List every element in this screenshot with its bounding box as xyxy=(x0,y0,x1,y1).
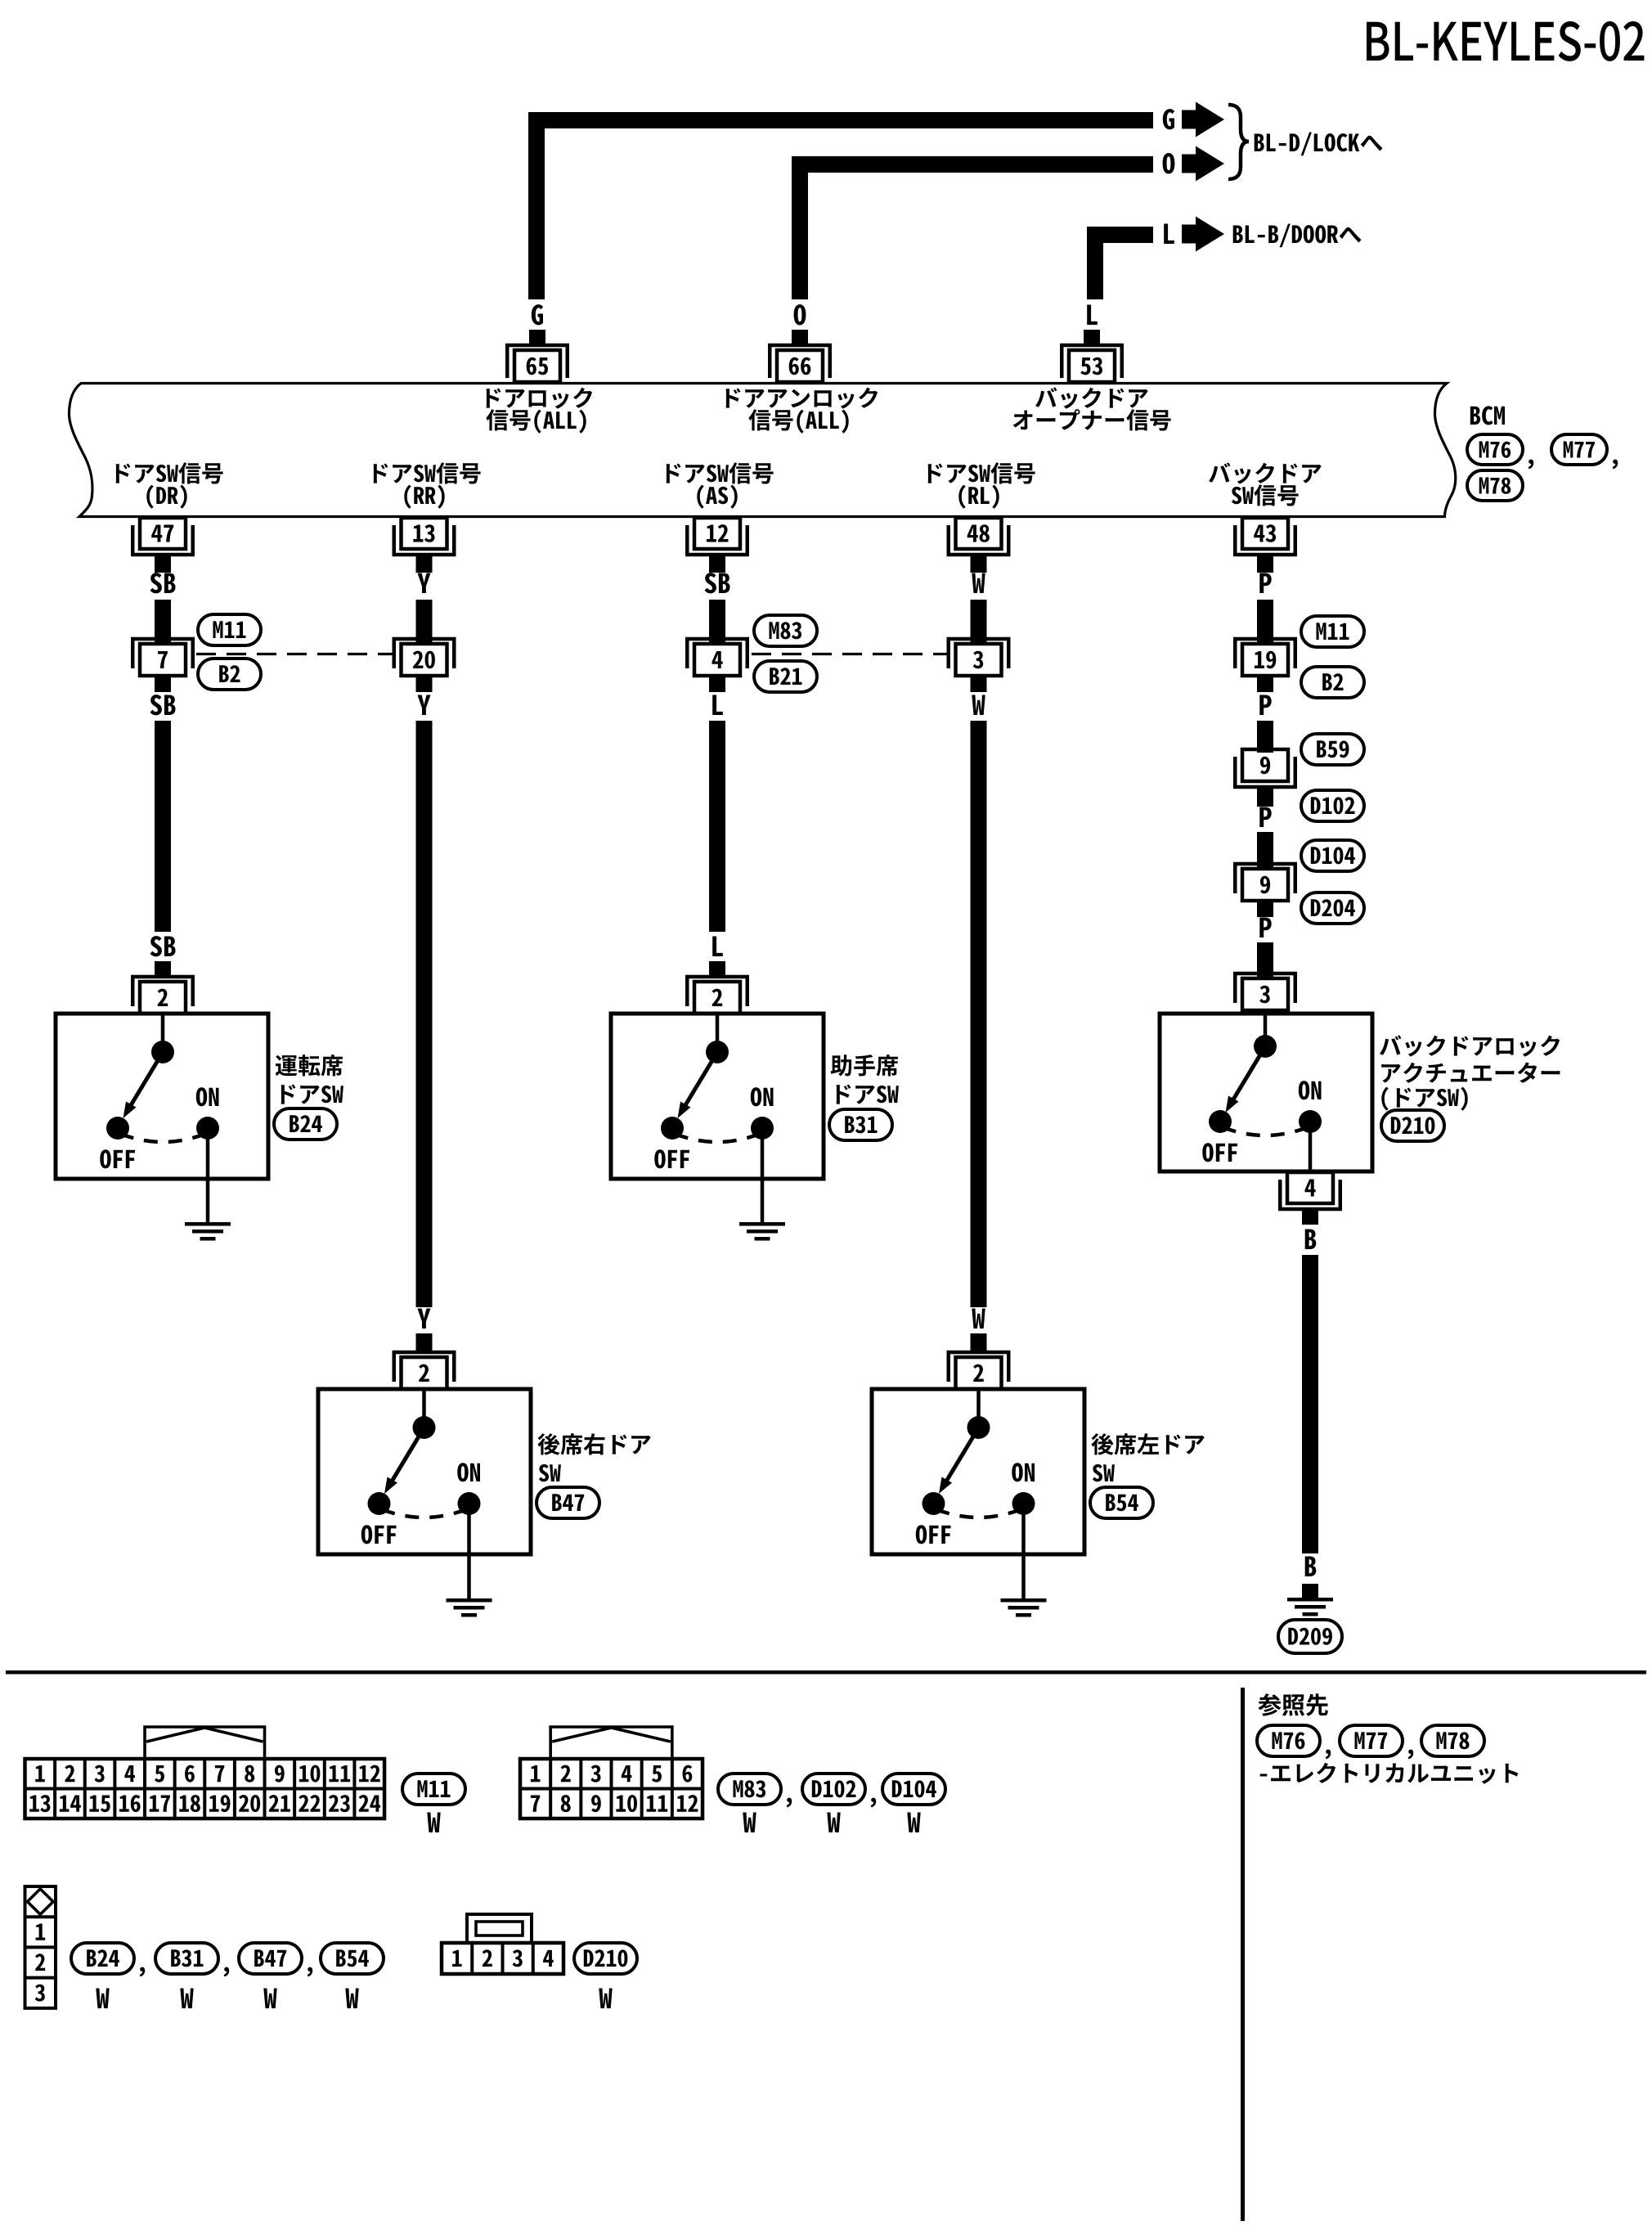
text door unlock signal (ALL) xyxy=(726,388,878,409)
label O above pin 66 xyxy=(794,304,806,325)
connector ref B54 (table) xyxy=(321,1943,384,1974)
connector ref M77 (reference) xyxy=(1340,1725,1403,1756)
connector ref M76 (reference) xyxy=(1257,1725,1320,1756)
BCM pin 13 box xyxy=(402,518,447,549)
switch dashed travel arc xyxy=(1223,1127,1308,1135)
connector ref D209 xyxy=(1278,1620,1342,1653)
wire stub below pin 4 xyxy=(1302,1211,1318,1225)
wire col2 Y down to rear right door SW xyxy=(416,721,433,1307)
switch common contact dot xyxy=(706,1041,729,1063)
connector ref B2 (col1) xyxy=(198,659,261,690)
connector ref D204 xyxy=(1301,892,1364,924)
BCM pin 47 box xyxy=(140,518,186,549)
connector pin 2 (B47) xyxy=(394,1352,455,1382)
BCM pin 66 box xyxy=(777,350,823,382)
switch common contact feed line xyxy=(1264,1014,1268,1046)
connector ref M11 (col1) xyxy=(198,614,261,645)
connector ref B47 (table) xyxy=(239,1943,302,1974)
switch box B54 (rear left door SW) xyxy=(872,1389,1084,1554)
switch common contact dot xyxy=(413,1416,436,1439)
BCM pin 48 bracket xyxy=(949,525,1009,555)
BCM pin 43 box xyxy=(1242,518,1288,549)
switch ON contact dot xyxy=(1012,1492,1035,1515)
brace BL-D/LOCK xyxy=(1228,105,1249,179)
label O wire color (right) xyxy=(1163,153,1175,173)
text BCM xyxy=(1470,406,1505,425)
wire col4 W from pin 48 xyxy=(971,600,987,644)
label G wire color (right) xyxy=(1163,109,1174,129)
switch common contact feed line xyxy=(716,1014,720,1052)
switch ON contact dot xyxy=(1299,1110,1322,1133)
connector ref D102 (table) xyxy=(802,1774,865,1805)
switch dashed travel arc xyxy=(120,1134,205,1142)
wire color label B xyxy=(1305,1230,1317,1250)
connector ref M76 (right of BCM) xyxy=(1467,434,1523,465)
text バックドアロックアクチュエーター(ドアSW) xyxy=(1380,1035,1560,1056)
wire color label SB xyxy=(150,573,176,593)
switch OFF contact dot xyxy=(368,1492,391,1515)
connector ref B59 xyxy=(1301,734,1364,765)
switch ON contact line down xyxy=(1021,1504,1026,1556)
wire stub below pin 19 xyxy=(1257,676,1273,692)
connector ref M83 (table) xyxy=(718,1774,781,1805)
connector ref D104 (table) xyxy=(882,1774,945,1805)
wire color label SB xyxy=(150,936,176,956)
text door lock signal (ALL) xyxy=(487,388,593,409)
text door SW signal (RR) xyxy=(374,462,481,483)
switch ON contact line down xyxy=(761,1128,765,1180)
switch OFF contact dot xyxy=(661,1117,684,1140)
text back door SW signal xyxy=(1209,462,1322,483)
label OFF xyxy=(1202,1143,1237,1162)
BCM pin 53 bracket xyxy=(1062,345,1122,378)
switch common contact dot xyxy=(967,1416,990,1439)
switch dashed travel arc xyxy=(675,1134,760,1142)
connector ref D102 xyxy=(1301,790,1364,821)
label OFF xyxy=(361,1525,397,1544)
switch OFF contact dot xyxy=(923,1492,945,1515)
wire L (back door opener signal) xyxy=(1087,227,1153,243)
wire color label SB xyxy=(705,573,730,593)
BCM pin 65 bracket xyxy=(507,345,568,378)
wire color label W xyxy=(972,695,985,716)
BCM pin 43 bracket xyxy=(1235,525,1295,555)
wire color label P xyxy=(1259,573,1271,594)
switch ON contact dot xyxy=(751,1117,774,1140)
wire color label L xyxy=(712,695,723,716)
connector ref D210 xyxy=(1381,1110,1444,1141)
switch ON contact line down xyxy=(1309,1122,1313,1171)
switch arm arrow (to OFF) xyxy=(945,1429,978,1485)
switch box B47 (rear right door SW) xyxy=(318,1389,531,1554)
text door SW signal (AS) xyxy=(667,462,774,483)
wire color label Y xyxy=(418,695,431,716)
text 後席右ドアSW xyxy=(537,1433,650,1455)
labels W (M83 D102 D104) xyxy=(743,1813,756,1833)
connector pin 2 (B24) xyxy=(132,977,193,1006)
ground (passenger door SW) xyxy=(739,1222,785,1226)
text -エレクトリカルユニット xyxy=(1260,1763,1519,1784)
connector ref B21 (col3) xyxy=(754,661,817,692)
text 後席左ドアSW xyxy=(1091,1433,1204,1455)
text 参照先 xyxy=(1258,1693,1328,1716)
wire stub above pin 2 (B31) xyxy=(709,961,725,977)
inline connector pin 4 xyxy=(687,639,747,668)
connector pin 3 (D210) xyxy=(1235,973,1295,1003)
wire stub below pin 48 xyxy=(971,556,987,573)
wire color label W xyxy=(972,573,985,594)
switch dashed travel arc xyxy=(936,1509,1021,1517)
wire col1 SB from pin 47 to connector M11/B2 xyxy=(155,600,171,644)
wire col5 P segment 2 xyxy=(1257,832,1273,869)
switch box B24 (driver door SW) xyxy=(56,1014,268,1179)
separator line xyxy=(6,1670,1646,1675)
connector pin 2 (B54) xyxy=(949,1352,1009,1382)
wire stub above pin 53 xyxy=(1084,330,1100,345)
wire color label SB xyxy=(150,695,176,715)
wire col5 P segment 3 xyxy=(1257,942,1273,978)
wire col5 P from pin 43 xyxy=(1257,600,1273,644)
switch ON contact dot xyxy=(196,1117,219,1140)
wire col5 P segment xyxy=(1257,721,1273,753)
connector ref B24 xyxy=(274,1108,337,1140)
arrow to BL-D/LOCK (G) xyxy=(1182,110,1199,129)
label ON xyxy=(457,1463,480,1481)
connector face M11 24-pin table xyxy=(25,1759,385,1819)
BCM pin 65 box xyxy=(514,350,560,382)
wire col5 B to ground xyxy=(1302,1255,1318,1553)
wire stub below pin 4 xyxy=(709,676,725,692)
connector ref M77 xyxy=(1551,434,1607,465)
switch OFF contact dot xyxy=(1209,1110,1232,1133)
switch arm arrow (to OFF) xyxy=(128,1054,162,1109)
connector ref M11 (table) xyxy=(402,1774,465,1805)
text BL-D/LOCKへ xyxy=(1255,133,1383,156)
BCM pin 47 bracket xyxy=(132,525,193,555)
inline connector pin 9 xyxy=(1235,757,1295,787)
ground D209 xyxy=(1287,1598,1333,1602)
wire stub above pin 66 xyxy=(792,330,808,345)
label ON xyxy=(1299,1081,1322,1099)
switch arm arrow (to OFF) xyxy=(683,1054,716,1109)
text 運転席ドアSW xyxy=(276,1054,343,1076)
connector ref M78 (reference) xyxy=(1421,1725,1484,1756)
switch OFF contact dot xyxy=(106,1117,129,1140)
wire stub below pin 13 xyxy=(416,556,433,573)
pin numbers 1-4 xyxy=(452,1949,554,1967)
connector ref D210 (table) xyxy=(574,1943,637,1974)
wire col4 W down to rear left door SW xyxy=(971,721,987,1307)
inline connector pin 20 xyxy=(394,639,455,668)
switch common contact feed line xyxy=(161,1014,165,1052)
pin numbers 1-3 xyxy=(35,1924,46,2002)
wire color label W xyxy=(972,1309,985,1329)
wire stub below pin 9 xyxy=(1257,787,1273,807)
text door SW signal (RL) xyxy=(928,462,1035,483)
reference column divider line xyxy=(1241,1688,1245,2221)
wire stub above pin 65 xyxy=(529,330,545,345)
inline connector pin 19 xyxy=(1235,639,1295,668)
wire color label P xyxy=(1259,695,1271,716)
wire O (door unlock signal) xyxy=(792,156,1153,173)
wire stub below pin 47 xyxy=(155,556,171,573)
wire color label L xyxy=(712,937,723,957)
wire col3 SB from pin 12 xyxy=(709,600,725,644)
connector pin 2 (B31) xyxy=(687,977,747,1006)
connector ref M78 xyxy=(1467,470,1523,501)
connector ref M11 (col5) xyxy=(1301,616,1364,647)
connector ref D104 xyxy=(1301,840,1364,871)
ground (rear left door SW) xyxy=(1001,1598,1047,1603)
dashed link M11/B2 pins 7-20 xyxy=(196,653,393,655)
connector face M83 12-pin table xyxy=(520,1759,703,1819)
switch box B31 (passenger door SW) xyxy=(611,1014,824,1179)
BCM box outline (torn-edge box) xyxy=(70,384,1456,517)
wire stub below pin 43 xyxy=(1257,556,1273,573)
wire stub below pin 7 xyxy=(155,676,171,692)
connector pin 4 (D210 bottom) xyxy=(1287,1172,1333,1203)
label ON xyxy=(751,1087,774,1106)
dashed link M83/B21 pins 4-3 xyxy=(752,653,948,655)
inline connector pin 9 xyxy=(1235,864,1295,893)
connector ref B31 xyxy=(829,1109,892,1140)
wire stub above ground xyxy=(1302,1584,1318,1598)
wire col1 SB down to driver door SW xyxy=(155,721,171,932)
connector face D210 4-pin table xyxy=(442,1943,563,1974)
switch dashed travel arc xyxy=(382,1509,467,1517)
wire color label Y xyxy=(418,1309,431,1329)
text BL-B/DOORへ xyxy=(1233,224,1362,248)
text door SW signal (DR) xyxy=(116,462,223,483)
BCM pin 12 bracket xyxy=(687,525,747,555)
label OFF xyxy=(100,1149,135,1168)
labels W (B24 B31 B47 B54) xyxy=(96,1989,109,2009)
title BL-KEYLES-02 xyxy=(1367,21,1644,61)
BCM pin 12 box xyxy=(694,518,740,549)
BCM pin 53 box xyxy=(1069,350,1115,382)
connector ref B54 xyxy=(1090,1487,1153,1518)
wire stub below pin 20 xyxy=(416,676,433,692)
switch box D210 (back door lock actuator door SW) xyxy=(1160,1014,1372,1171)
wire stub below pin 12 xyxy=(709,556,725,573)
connector ref M83 (col3) xyxy=(754,615,817,646)
M11 connector clip mark xyxy=(145,1727,265,1759)
wire color label Y xyxy=(418,573,431,594)
wire color label P xyxy=(1259,807,1271,828)
ground lead B24 xyxy=(206,1179,210,1222)
wire col3 L down to passenger door SW xyxy=(709,721,725,932)
switch common contact feed line xyxy=(976,1389,981,1427)
label OFF xyxy=(916,1525,951,1544)
inline connector pin 7 xyxy=(132,639,193,668)
switch common contact dot xyxy=(151,1041,174,1063)
pin numbers 1-24 xyxy=(29,1765,380,1813)
ground (driver door SW) xyxy=(185,1222,231,1226)
switch ON contact line down xyxy=(206,1128,210,1180)
wire color label P xyxy=(1259,918,1271,938)
label ON xyxy=(1012,1463,1035,1481)
wire stub above pin 2 xyxy=(155,961,171,977)
text back door opener signal xyxy=(1035,387,1148,408)
ground lead B54 xyxy=(1021,1554,1026,1598)
label OFF xyxy=(654,1149,689,1168)
connector ref B2 (col5) xyxy=(1301,667,1364,698)
label W (D210) xyxy=(599,1989,612,2009)
switch arm arrow (to OFF) xyxy=(1231,1048,1264,1104)
connector face 3-pin vertical (B24/B31/B47/B54) xyxy=(25,1886,56,2008)
text 助手席ドアSW xyxy=(831,1054,898,1076)
label W (M11) xyxy=(427,1813,440,1833)
wire G (door lock signal) horizontal+vertical xyxy=(528,112,1153,128)
connector ref B31 (table) xyxy=(155,1943,218,1974)
switch ON contact dot xyxy=(458,1492,481,1515)
BCM pin 13 bracket xyxy=(394,525,455,555)
ground lead B31 xyxy=(761,1179,765,1222)
connector ref B24 (table) xyxy=(71,1943,134,1974)
switch common contact feed line xyxy=(422,1389,426,1427)
switch common contact dot xyxy=(1254,1035,1277,1058)
wire col2 Y from pin 13 xyxy=(416,600,433,644)
ground lead B47 xyxy=(467,1554,471,1598)
label ON xyxy=(196,1087,219,1106)
switch ON contact line down xyxy=(467,1504,471,1556)
BCM pin 66 bracket xyxy=(770,345,830,378)
wire stub above pin 2 (B47) xyxy=(416,1333,433,1352)
pin numbers 1-12 xyxy=(531,1765,698,1813)
M83 connector clip mark xyxy=(550,1727,672,1759)
arrow to BL-D/LOCK (O) xyxy=(1182,155,1199,173)
label L wire color (right) xyxy=(1164,224,1174,245)
ground (rear right door SW) xyxy=(447,1598,492,1603)
switch arm arrow (to OFF) xyxy=(390,1429,424,1485)
wire color label B xyxy=(1305,1557,1317,1577)
wire stub above pin 2 (B54) xyxy=(971,1333,987,1352)
label G above pin 65 xyxy=(532,304,543,325)
connector ref B47 xyxy=(536,1487,599,1518)
inline connector pin 3 xyxy=(949,639,1009,668)
BCM pin 48 box xyxy=(956,518,1002,549)
wire stub below pin 9 (second) xyxy=(1257,901,1273,917)
arrow to BL-B/DOOR (L) xyxy=(1182,225,1199,244)
wire stub below pin 3 xyxy=(971,676,987,692)
label L above pin 53 xyxy=(1087,305,1098,326)
